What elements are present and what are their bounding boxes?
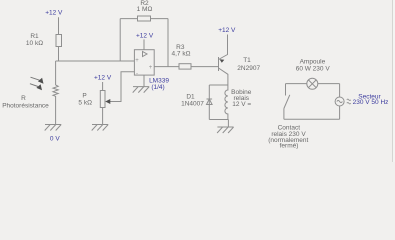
wire relay to ground — [227, 120, 229, 128]
light arrow 2 — [30, 84, 38, 87]
relay loop bottom wire — [209, 119, 228, 121]
wire potentiometer to ground — [102, 108, 104, 125]
lamp loop top wire — [286, 83, 340, 85]
svg-text:Ampoule: Ampoule — [300, 58, 326, 65]
lamp loop left wire upper — [285, 84, 287, 96]
switch blade (contact) — [284, 95, 290, 109]
lamp loop bottom wire — [284, 118, 340, 120]
relay loop top wire — [209, 84, 228, 86]
transistor Q1 base bar — [218, 57, 220, 71]
lamp (ampoule) — [307, 78, 318, 89]
lamp loop right wire — [339, 84, 341, 120]
wire +12V to potentiometer top — [102, 82, 104, 91]
feedback loop right vertical wire — [167, 19, 169, 67]
wire op-amp bottom to ground — [143, 75, 145, 87]
svg-text:(1/4): (1/4) — [151, 84, 164, 91]
feedback loop left vertical wire — [119, 19, 121, 61]
svg-text:Photorésistance: Photorésistance — [2, 103, 49, 110]
svg-text:1N4007: 1N4007 — [181, 101, 204, 108]
feedback loop top wire — [120, 18, 168, 20]
svg-text:10 kΩ: 10 kΩ — [26, 40, 43, 47]
wire +12V to R1 top — [58, 17, 60, 34]
svg-text:T1: T1 — [243, 57, 251, 64]
svg-text:0 V: 0 V — [50, 135, 60, 142]
svg-text:+12 V: +12 V — [94, 75, 112, 82]
light arrow 2 head — [36, 84, 42, 90]
svg-text:12 V =: 12 V = — [232, 101, 251, 108]
svg-text:60 W 230 V: 60 W 230 V — [296, 66, 331, 73]
relay coil L1 — [225, 85, 228, 120]
wire photoresistor to ground — [55, 96, 57, 125]
potentiometer P body — [100, 91, 105, 108]
svg-text:5 kΩ: 5 kΩ — [78, 99, 92, 106]
svg-text:D1: D1 — [186, 94, 195, 101]
svg-text:1 MΩ: 1 MΩ — [137, 6, 153, 13]
svg-text:230 V 50 Hz: 230 V 50 Hz — [353, 99, 389, 106]
svg-text:R1: R1 — [30, 33, 39, 40]
svg-text:+: + — [149, 65, 153, 71]
svg-text:R: R — [21, 95, 26, 102]
svg-text:+12 V: +12 V — [218, 27, 236, 34]
resistor R2 — [138, 16, 151, 21]
resistor R3 — [179, 64, 191, 69]
svg-text:+12 V: +12 V — [45, 9, 63, 16]
svg-text:+: + — [135, 58, 139, 64]
svg-text:4,7 kΩ: 4,7 kΩ — [172, 51, 191, 58]
diode D1 symbol — [207, 99, 213, 105]
ground (relay) — [217, 127, 234, 133]
ground (op-amp) — [133, 87, 150, 93]
lamp loop left wire lower — [283, 109, 285, 120]
canvas right edge — [393, 0, 395, 162]
ground (photoresistor) — [45, 125, 62, 131]
svg-text:-: - — [136, 72, 138, 78]
AC source (secteur) circle — [335, 97, 344, 106]
op-amp pin labels — [135, 58, 153, 78]
transistor emitter arrowhead — [220, 59, 225, 63]
light arrow 1 — [31, 77, 40, 80]
wire R1 bottom to node A — [58, 47, 60, 62]
svg-text:2N2907: 2N2907 — [237, 65, 260, 72]
diode D1 branch wire — [208, 85, 210, 120]
light arrow 1 head — [38, 78, 44, 84]
op-amp U1 LM339 body — [134, 50, 154, 75]
potentiometer wiper wire — [110, 72, 134, 102]
potentiometer wiper arrowhead — [105, 99, 110, 104]
AC small symbol — [347, 99, 351, 104]
transistor collector — [219, 68, 228, 85]
wire node A down to photoresistor — [55, 61, 57, 85]
svg-text:+12 V: +12 V — [136, 33, 154, 40]
transistor emitter — [219, 35, 228, 60]
wire op-amp output to transistor base — [154, 66, 218, 68]
svg-text:fermé): fermé) — [280, 143, 299, 150]
photoresistor R zigzag — [53, 85, 58, 96]
wire node A to op-amp + input — [56, 60, 135, 62]
ground (potentiometer) — [92, 125, 109, 131]
resistor R1 — [56, 35, 62, 47]
wire +12V to op-amp top — [143, 39, 145, 49]
